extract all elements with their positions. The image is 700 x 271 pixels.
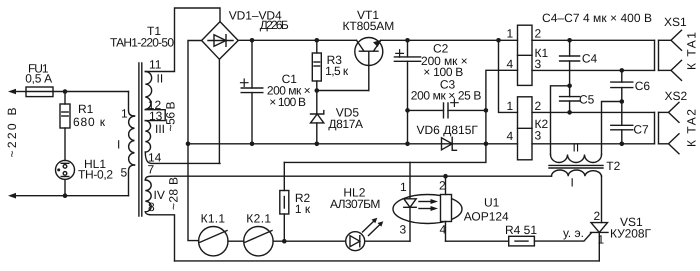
wire: jog pin12 to pin13 <box>145 110 165 121</box>
junction: C2 top <box>405 38 410 43</box>
svg-text:2: 2 <box>535 27 542 41</box>
svg-text:XS1: XS1 <box>664 15 687 29</box>
wire: U1 pin4 to R4 <box>446 240 509 242</box>
T1 winding IV (pins 7,8) <box>145 176 174 261</box>
wire: node B (K1 pin3 to XS1 bottom) <box>532 69 655 71</box>
svg-text:200 мк × 25 В: 200 мк × 25 В <box>411 89 482 103</box>
svg-text:C4: C4 <box>582 52 598 66</box>
wire: pin7 line to U1 pin2 and T2 winding I <box>152 175 552 177</box>
svg-text:~56 В: ~56 В <box>164 102 178 132</box>
svg-text:1 к: 1 к <box>295 202 311 216</box>
svg-text:C4–C7 4 мк × 400 В: C4–C7 4 мк × 400 В <box>542 11 652 25</box>
svg-text:II: II <box>573 141 580 155</box>
LED HL2 АЛ307БМ <box>346 218 410 251</box>
svg-text:C5: C5 <box>579 93 595 107</box>
svg-text:13: 13 <box>149 109 163 123</box>
svg-text:1: 1 <box>121 107 128 121</box>
svg-text:I: I <box>117 138 120 152</box>
svg-text:1: 1 <box>507 27 514 41</box>
svg-text:~28 В: ~28 В <box>167 177 181 210</box>
svg-text:II: II <box>157 72 164 86</box>
svg-text:XS2: XS2 <box>665 89 688 103</box>
wire: pin14 to bridge bottom lead <box>145 152 220 163</box>
svg-text:5: 5 <box>121 166 128 180</box>
capacitor C5 <box>560 86 580 113</box>
resistor R1 680 к <box>60 92 70 161</box>
svg-text:Т2: Т2 <box>606 159 620 173</box>
T1 primary winding I (pins 1,5) <box>129 92 135 196</box>
junction: C4/C5 midpoint J1 <box>567 84 572 89</box>
connector XS1 <box>655 30 682 80</box>
svg-text:2: 2 <box>535 99 542 113</box>
capacitor C4 <box>560 40 580 86</box>
transistor VT1 КТ805АМ <box>355 38 383 91</box>
wire: 220V upper line with left arrow <box>8 89 129 95</box>
svg-text:× 100 В: × 100 В <box>269 95 306 109</box>
junction: C6 top <box>620 68 625 73</box>
svg-text:0,5 А: 0,5 А <box>25 72 52 86</box>
svg-text:ТАН1-220-50: ТАН1-220-50 <box>110 36 174 50</box>
junction: C4 top <box>567 38 572 43</box>
svg-text:2: 2 <box>439 179 446 193</box>
svg-text:C6: C6 <box>635 79 651 93</box>
svg-text:1,5 к: 1,5 к <box>325 64 349 78</box>
zener VD6 Д815Г <box>442 137 457 150</box>
wire: K1.1 to K2.1 <box>228 240 244 242</box>
junction: R3 / VD5 / base <box>315 88 320 93</box>
svg-text:2: 2 <box>594 209 601 223</box>
capacitor C3 200 мк × 25 В <box>408 99 486 118</box>
svg-text:Д226Б: Д226Б <box>260 18 289 32</box>
wire: bridge bottom vertex down (x220) <box>218 59 220 163</box>
wire: J1 to T2 winding II left <box>551 86 570 155</box>
svg-text:К ТА1: К ТА1 <box>685 32 699 70</box>
svg-text:К ТА2: К ТА2 <box>685 109 699 147</box>
svg-text:3: 3 <box>535 57 542 71</box>
junction: HL1 / lower line <box>63 193 68 198</box>
svg-text:АЛ307БМ: АЛ307БМ <box>330 197 380 211</box>
junction: C6/C7 midpoint <box>620 99 625 104</box>
svg-text:у. э.: у. э. <box>563 226 584 240</box>
wire: K2 pin1 feed via x498.5 <box>499 40 518 112</box>
zener VD5 Д817А <box>311 91 324 144</box>
svg-text:1: 1 <box>507 99 514 113</box>
junction: fuse / R1 node <box>63 89 68 94</box>
wire: VT1 base to R3 bottom <box>317 90 369 92</box>
fuse FU1 0,5 А <box>26 87 53 97</box>
wire: 220V lower line with left arrow <box>8 193 129 199</box>
capacitor C6 <box>611 70 633 101</box>
wire: bottom rail <box>175 260 600 262</box>
svg-text:I: I <box>571 176 574 190</box>
svg-text:АОР124: АОР124 <box>464 210 509 224</box>
junction: VD5 bottom <box>315 142 320 147</box>
wire: R4 to VS1 gate <box>534 233 591 241</box>
junction: C1 bottom <box>250 142 255 147</box>
svg-text:8: 8 <box>148 200 155 214</box>
svg-text:C7: C7 <box>633 123 649 137</box>
svg-text:ТН-0,2: ТН-0,2 <box>78 168 113 182</box>
wire: node C (K2 pin2 to XS2 top) <box>532 111 655 113</box>
T1 winding II (pins 11,12) <box>145 72 151 110</box>
svg-text:11: 11 <box>149 58 162 72</box>
svg-text:3: 3 <box>400 223 407 237</box>
bridge rectifier VD1-VD4 Д226Б <box>202 22 239 60</box>
svg-text:К1.1: К1.1 <box>201 212 226 226</box>
svg-text:4: 4 <box>507 57 514 71</box>
svg-text:VD6 Д815Г: VD6 Д815Г <box>417 123 479 137</box>
relay K2 <box>518 97 533 160</box>
svg-text:III: III <box>155 122 165 136</box>
junction: VD6 left <box>405 142 410 147</box>
svg-text:680 к: 680 к <box>73 115 106 129</box>
T1 winding III (pins 13,14) <box>145 121 150 153</box>
svg-text:4: 4 <box>440 223 447 237</box>
wire: DC- rail y143.8 <box>188 143 518 145</box>
resistor R3 1,5 к <box>312 40 321 90</box>
T1 core <box>139 63 142 216</box>
optocoupler U1 АОР124 <box>393 162 462 241</box>
svg-text:КУ208Г: КУ208Г <box>610 227 652 241</box>
svg-text:1: 1 <box>400 180 407 194</box>
capacitor C2 200 мк × 100 В <box>394 40 420 144</box>
svg-text:1: 1 <box>598 233 605 247</box>
resistor R2 1 к <box>280 162 289 241</box>
svg-text:U1: U1 <box>484 196 500 210</box>
junction: C3 left <box>405 108 410 113</box>
svg-text:R1: R1 <box>78 102 94 116</box>
connector XS2 <box>655 102 680 153</box>
svg-text:~220 В: ~220 В <box>5 108 19 158</box>
transformer T2 <box>549 155 603 177</box>
svg-text:R4 51: R4 51 <box>505 223 537 237</box>
wire: K2.1 to HL2 <box>273 240 346 242</box>
wire: bridge left vertex down to contacts (x188) <box>188 41 202 241</box>
junction: DC- rail start <box>186 142 191 147</box>
wire: K1 pin4 loop via x485.9 down to y162.4 line <box>284 70 517 162</box>
svg-text:Д817А: Д817А <box>328 117 363 131</box>
resistor R4 51 <box>509 236 535 246</box>
junction: VD6 right / C3 right <box>484 108 489 113</box>
junction: U1 pin2 <box>443 174 448 179</box>
wire: node D (K2 pin3 to XS2 bottom) <box>532 143 655 145</box>
junction: rail / K2 feed <box>496 38 501 43</box>
thyristor VS1 КУ208Г <box>591 176 609 261</box>
junction: C1 top <box>250 38 255 43</box>
junction: C7 bottom <box>620 142 625 147</box>
contact K1.1 <box>199 227 228 256</box>
contact K2.1 <box>244 227 273 256</box>
svg-text:3: 3 <box>535 129 542 143</box>
lamp HL1 ТН-0,2 (neon) <box>56 160 75 195</box>
capacitor C7 <box>611 102 633 144</box>
svg-text:К2.1: К2.1 <box>246 212 271 226</box>
capacitor C1 200 мк × 100 В <box>241 40 263 144</box>
junction: R3 top <box>315 38 320 43</box>
relay K1 <box>518 25 533 85</box>
wire: main + rail y40.3 <box>238 39 517 41</box>
junction: R2 bottom <box>282 239 287 244</box>
wire: C6/C7 midpoint to T2 winding II right <box>602 102 622 155</box>
svg-text:7: 7 <box>148 163 155 177</box>
svg-text:IV: IV <box>154 188 165 202</box>
junction: C5 bottom <box>567 110 572 115</box>
svg-text:4: 4 <box>507 129 514 143</box>
wire: node A (K1 pin2 to XS1 top) <box>532 39 655 41</box>
wire: pin11 to bridge top <box>145 8 220 72</box>
svg-text:КТ805АМ: КТ805АМ <box>343 19 395 33</box>
